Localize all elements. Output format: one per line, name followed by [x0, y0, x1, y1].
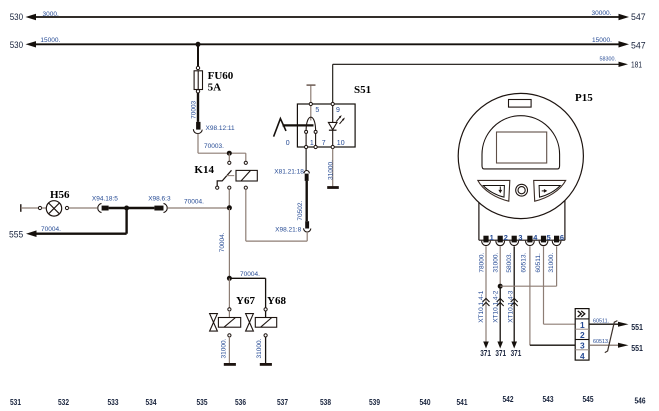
svg-text:0: 0	[286, 140, 290, 147]
svg-text:X81.21:18: X81.21:18	[274, 168, 304, 175]
svg-text:6: 6	[560, 233, 564, 242]
svg-text:70502.: 70502.	[297, 201, 304, 221]
svg-text:P15: P15	[575, 92, 593, 104]
svg-text:31000.: 31000.	[492, 253, 499, 273]
svg-text:3: 3	[518, 233, 522, 242]
svg-text:FU60: FU60	[208, 70, 234, 82]
svg-text:546: 546	[635, 397, 646, 406]
svg-text:70003.: 70003.	[204, 143, 224, 150]
svg-text:2: 2	[504, 233, 508, 242]
svg-text:537: 537	[277, 398, 288, 407]
svg-text:371: 371	[495, 349, 506, 358]
svg-text:551: 551	[631, 344, 643, 353]
svg-text:70004.: 70004.	[240, 271, 260, 278]
svg-text:58003.: 58003.	[506, 253, 513, 273]
svg-text:70003: 70003	[191, 100, 198, 118]
svg-text:31000.: 31000.	[221, 338, 228, 358]
svg-text:H56: H56	[50, 189, 70, 201]
svg-text:58300.: 58300.	[600, 57, 617, 63]
svg-text:1: 1	[310, 140, 314, 147]
svg-text:70004.: 70004.	[184, 198, 204, 205]
svg-text:70004.: 70004.	[41, 226, 61, 233]
svg-text:545: 545	[583, 395, 594, 404]
svg-text:4: 4	[580, 351, 585, 361]
svg-text:10: 10	[337, 140, 345, 147]
svg-text:530: 530	[10, 40, 23, 50]
svg-text:371: 371	[480, 349, 491, 358]
svg-text:XT10.1.4-1: XT10.1.4-1	[478, 290, 485, 323]
svg-text:S51: S51	[354, 84, 371, 96]
svg-text:540: 540	[420, 398, 431, 407]
svg-text:60513.: 60513.	[521, 253, 528, 273]
svg-text:31000.: 31000.	[548, 253, 555, 273]
svg-text:534: 534	[146, 398, 157, 407]
svg-text:5A: 5A	[208, 82, 222, 94]
svg-text:5: 5	[315, 107, 319, 114]
svg-text:60511.: 60511.	[535, 253, 542, 273]
svg-text:XT10.1.4-2: XT10.1.4-2	[492, 290, 499, 323]
svg-text:3: 3	[580, 341, 585, 351]
svg-text:535: 535	[197, 398, 208, 407]
svg-text:1: 1	[580, 320, 585, 330]
svg-text:533: 533	[108, 398, 119, 407]
svg-text:70004.: 70004.	[219, 232, 226, 252]
svg-text:530: 530	[10, 12, 23, 22]
svg-text:539: 539	[369, 398, 380, 407]
svg-text:78000.: 78000.	[479, 253, 486, 273]
svg-text:XT10.1.4-3: XT10.1.4-3	[508, 290, 515, 323]
svg-text:31000.: 31000.	[256, 338, 263, 358]
svg-text:30000.: 30000.	[592, 10, 612, 17]
svg-text:X98.21:8: X98.21:8	[275, 227, 301, 234]
svg-text:1: 1	[490, 233, 494, 242]
svg-text:60513.: 60513.	[593, 339, 610, 345]
svg-text:X98.12:11: X98.12:11	[206, 125, 236, 132]
svg-text:5: 5	[547, 233, 551, 242]
svg-text:371: 371	[511, 349, 522, 358]
svg-text:538: 538	[320, 398, 331, 407]
svg-text:181: 181	[631, 60, 642, 70]
svg-text:532: 532	[58, 398, 69, 407]
svg-text:60511.: 60511.	[593, 319, 609, 325]
svg-text:3000.: 3000.	[43, 11, 59, 18]
svg-text:15000.: 15000.	[592, 37, 612, 44]
svg-text:31000.: 31000.	[327, 160, 334, 180]
svg-text:555: 555	[9, 230, 23, 240]
svg-text:15000.: 15000.	[40, 37, 60, 44]
svg-text:Y68: Y68	[267, 295, 286, 307]
svg-text:X98.6:3: X98.6:3	[148, 196, 171, 203]
svg-text:551: 551	[631, 323, 643, 332]
svg-text:547: 547	[631, 40, 646, 50]
svg-text:9: 9	[336, 107, 340, 114]
svg-text:536: 536	[235, 398, 246, 407]
svg-text:541: 541	[457, 398, 468, 407]
svg-text:Y67: Y67	[236, 295, 255, 307]
svg-text:542: 542	[503, 395, 514, 404]
svg-text:X94.18:5: X94.18:5	[92, 196, 118, 203]
svg-text:2: 2	[580, 330, 585, 340]
svg-text:547: 547	[631, 12, 646, 22]
svg-text:543: 543	[543, 395, 554, 404]
svg-text:K14: K14	[194, 164, 214, 176]
svg-text:7: 7	[322, 140, 326, 147]
svg-text:531: 531	[10, 398, 21, 407]
